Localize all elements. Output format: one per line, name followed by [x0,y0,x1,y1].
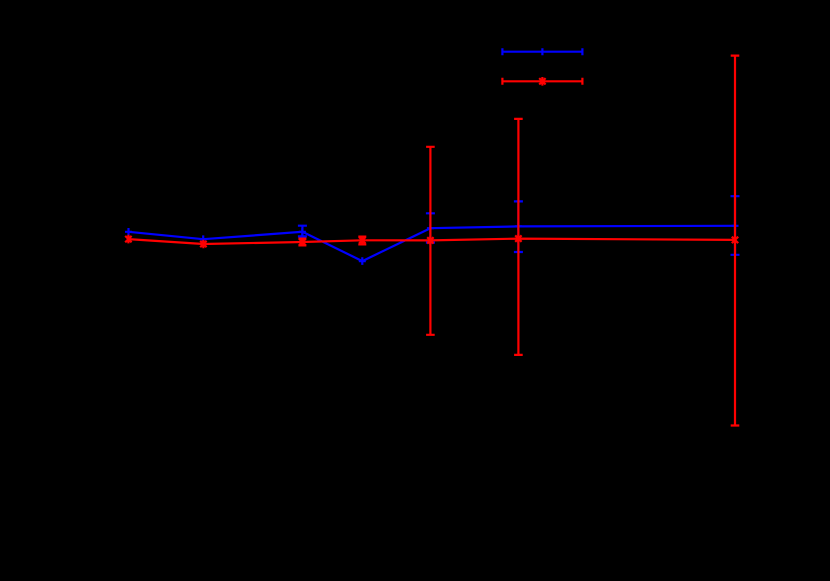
red big error bar at point 6 [514,119,523,355]
red star markers [125,234,738,248]
red legend sample [502,77,582,86]
blue legend sample [502,48,582,55]
red small error bar at point 4 [358,237,366,245]
blue plus markers [125,222,739,265]
blue error bar at point 5 [426,213,435,242]
red big error bar at point 5 [426,147,435,335]
red big error bar at point 7 [731,56,740,426]
blue series polyline [129,226,736,261]
blue error bar at point 6 [514,201,523,252]
red small error bar at point 3 [298,239,306,246]
red series polyline [128,239,735,244]
blue error bar at point 7 [731,196,740,255]
blue error bar at point 3 [298,226,307,237]
